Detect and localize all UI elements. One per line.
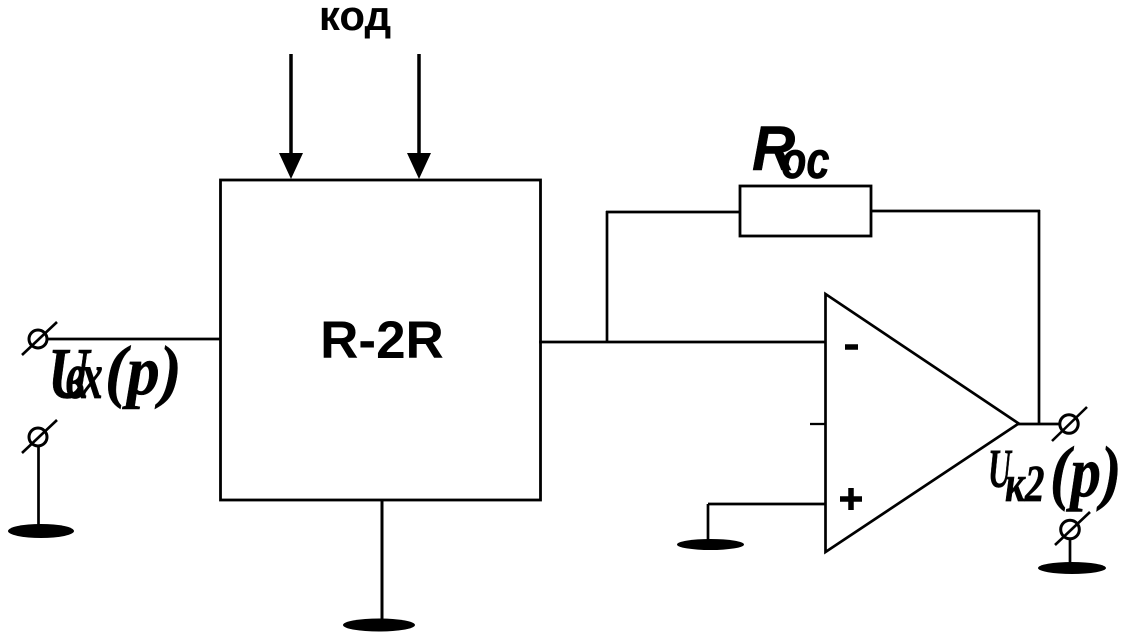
op-amp left edge tick (810, 423, 826, 425)
feedback wire top right (871, 210, 1040, 213)
output terminal T3 (1052, 407, 1087, 441)
label Uвх(p) (48, 331, 182, 415)
ground G4 (1038, 562, 1106, 574)
ground G2 (343, 619, 415, 632)
wire block bottom to ground (381, 500, 384, 621)
op-amp A1 (826, 294, 1019, 552)
wire input to block (47, 338, 221, 341)
code input arrow 2 (407, 54, 431, 179)
wire to non-inverting input (708, 503, 826, 506)
svg-text:код: код (319, 0, 391, 39)
R-2R ladder block U1 (221, 180, 541, 500)
svg-text:R-2R: R-2R (320, 311, 444, 370)
code input arrow 1 (279, 54, 303, 179)
label Uвых(p) (988, 432, 1121, 512)
svg-text:ос: ос (781, 131, 830, 190)
wire non-inverting input to ground (707, 504, 710, 541)
op-amp plus sign (840, 488, 862, 510)
svg-text:к2: к2 (1005, 455, 1044, 513)
op-amp output wire (1018, 423, 1061, 426)
label Roc (752, 114, 830, 189)
terminal T4 (1055, 512, 1090, 545)
svg-text:вх: вх (66, 340, 102, 414)
resistor Roc (740, 186, 871, 236)
ground G3 (677, 539, 744, 550)
feedback wire top left (606, 211, 740, 214)
terminal T2 (22, 420, 57, 453)
feedback wire left vertical (606, 211, 609, 343)
wire T4 to ground (1069, 539, 1072, 564)
svg-text:(p): (p) (1050, 432, 1121, 512)
input terminal T1 (22, 322, 57, 355)
wire T2 to ground (37, 446, 40, 527)
svg-text:(p): (p) (105, 331, 182, 409)
ground G1 (8, 524, 74, 538)
feedback wire right vertical (1038, 210, 1041, 425)
op-amp minus sign (845, 344, 858, 350)
wire block output to op-amp inverting input (539, 341, 826, 344)
